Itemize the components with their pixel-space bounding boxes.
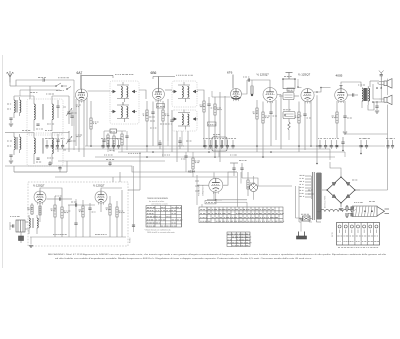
mains plug xyxy=(349,202,390,217)
capacitor C47 xyxy=(341,137,344,151)
fuse F1 xyxy=(301,214,312,221)
capacitor cluster C13-C16 xyxy=(45,138,65,149)
wire phono bottom bus xyxy=(30,235,126,238)
wire xyxy=(76,98,88,157)
volume control P1 xyxy=(208,122,228,157)
junction dots xyxy=(90,145,363,158)
wire xyxy=(158,99,168,146)
rectifier bridge xyxy=(322,172,360,207)
IF transformer T2 secondary xyxy=(172,110,198,132)
tube V1 xyxy=(76,89,88,103)
IF transformer T1 xyxy=(110,81,139,124)
capacitor C4 xyxy=(149,102,155,147)
resistor R17 xyxy=(116,201,125,237)
tube V8 xyxy=(34,191,46,205)
resistor R2 xyxy=(143,101,149,152)
capacitor C1 xyxy=(38,78,46,82)
resistor R3 xyxy=(162,101,169,157)
phono preamp enclosure xyxy=(28,182,128,246)
svg-text:6E84: 6E84 xyxy=(188,170,195,174)
power transformer T5 xyxy=(300,172,327,222)
svg-text:PRESA FONO: PRESA FONO xyxy=(198,184,201,196)
svg-text:* Valori rilevati con voltmet: * Valori rilevati con voltmetro da xyxy=(144,228,171,231)
tube V3 xyxy=(231,89,242,102)
wire xyxy=(40,188,122,237)
svg-text:AVVOLG. RETE: AVVOLG. RETE xyxy=(324,195,327,208)
wire bus xyxy=(14,161,67,172)
wire xyxy=(113,152,140,232)
capacitor C45 xyxy=(346,205,348,218)
inductor L2 xyxy=(7,134,21,163)
wire AVC bus xyxy=(55,148,330,150)
tube label 12SQ7b xyxy=(298,73,311,77)
resistor R8 xyxy=(279,88,299,100)
wire xyxy=(14,96,69,103)
wire B+ bus xyxy=(85,145,385,147)
capacitor C43 xyxy=(108,161,111,166)
capacitor C7 xyxy=(282,73,296,89)
tube label 4005 xyxy=(336,73,343,77)
capacitor cluster C31-C32 xyxy=(359,138,370,154)
wire xyxy=(368,102,379,110)
wire bus xyxy=(55,176,237,178)
svg-text:FONO: FONO xyxy=(130,237,132,243)
tube label 6B6 xyxy=(151,71,157,75)
capacitor C35 xyxy=(47,196,73,201)
capacitor C6 xyxy=(243,77,270,88)
capacitor C48 xyxy=(158,140,161,149)
wire xyxy=(387,79,389,190)
wire xyxy=(214,172,292,200)
svg-text:GIRADISCHI: GIRADISCHI xyxy=(202,185,205,196)
ground xyxy=(296,218,304,221)
vertical caption xyxy=(130,237,132,243)
svg-text:½ 12SQ7: ½ 12SQ7 xyxy=(33,184,45,188)
tube label 12SQ7d xyxy=(93,184,105,188)
capacitor C46 xyxy=(351,207,353,217)
wire xyxy=(5,131,69,135)
ground xyxy=(29,237,33,248)
wire xyxy=(370,81,379,99)
resistor R10 xyxy=(295,102,302,153)
capacitor cluster C17-C20 xyxy=(101,138,122,149)
svg-text:½ 12SQ7: ½ 12SQ7 xyxy=(298,73,311,77)
antenna xyxy=(7,71,14,83)
tube label 6A7 xyxy=(77,71,83,75)
wire xyxy=(276,95,281,150)
capacitor C12 xyxy=(375,103,379,113)
tube V7 xyxy=(209,178,223,194)
wire xyxy=(88,90,147,99)
wire mains pair xyxy=(296,186,314,222)
tube V9 xyxy=(95,191,107,205)
wire bus right xyxy=(329,149,331,160)
wire xyxy=(63,96,74,150)
caption text xyxy=(48,253,387,260)
capacitor C40 xyxy=(168,110,174,152)
wire xyxy=(207,192,254,201)
capacitor C8 xyxy=(269,102,277,147)
svg-text:TENSIONI MISURATE: TENSIONI MISURATE xyxy=(147,197,169,200)
resistor R12 xyxy=(27,203,33,215)
svg-text:½ 12SQ7: ½ 12SQ7 xyxy=(257,73,270,77)
annotation xyxy=(198,184,205,196)
capacitor C39 xyxy=(239,161,246,179)
wire top-cap staple xyxy=(82,75,134,78)
oscillator network xyxy=(102,129,128,152)
wire xyxy=(69,199,78,237)
pickup PU xyxy=(10,217,28,244)
resistor R14 xyxy=(61,201,70,238)
svg-text:MECANISMO: Mod. 47 1139 Appr: MECANISMO: Mod. 47 1139 Approvato la 348… xyxy=(48,253,387,256)
svg-text:RETE: RETE xyxy=(332,231,334,237)
svg-text:4005: 4005 xyxy=(336,73,343,77)
resistor R7 xyxy=(262,102,270,158)
tube V6 xyxy=(335,86,348,103)
wire xyxy=(10,80,42,86)
wire heater bus xyxy=(95,155,335,157)
variable capacitor CV1 xyxy=(66,103,77,124)
wire top-cap staple xyxy=(153,75,193,88)
output transformer T3 xyxy=(358,85,370,108)
resistor R9 xyxy=(283,100,295,140)
wire xyxy=(341,82,361,97)
wire xyxy=(16,86,60,96)
tap table xyxy=(227,232,251,247)
ground xyxy=(339,203,343,211)
tube V4 xyxy=(263,88,277,104)
capacitor C11 xyxy=(372,71,383,103)
connector J1 xyxy=(241,172,258,192)
resistor R5 xyxy=(214,97,222,156)
wire field return upper xyxy=(345,133,388,135)
ballast resistor xyxy=(317,210,356,212)
svg-text:6T6: 6T6 xyxy=(227,71,233,75)
tube label 12SQ7a xyxy=(257,73,270,77)
wire xyxy=(212,75,247,98)
svg-text:ed alta fedelta con mobile d'i: ed alta fedelta con mobile d'impedenza v… xyxy=(55,257,313,260)
capacitor C38 xyxy=(230,163,238,176)
tube V2 xyxy=(152,88,164,102)
resistor R20 xyxy=(251,80,253,96)
capacitor C2 xyxy=(67,110,74,126)
svg-text:1000 ohm/V in corrente alterna: 1000 ohm/V in corrente alternata xyxy=(147,231,175,234)
wire xyxy=(165,90,204,162)
voltage table xyxy=(144,197,183,234)
capacitor cluster C21-C26 xyxy=(203,138,236,149)
resistor R19 xyxy=(39,206,41,222)
capacitor cluster C33-C34 xyxy=(386,138,395,149)
resistor R1 xyxy=(90,101,99,146)
capacitor C10 xyxy=(343,101,352,134)
wire xyxy=(310,95,318,164)
wire ground bus xyxy=(5,166,237,172)
wire bus xyxy=(58,160,165,162)
wire xyxy=(195,173,228,206)
wire xyxy=(44,75,81,97)
speaker LS2 xyxy=(379,95,392,105)
capacitor C42 xyxy=(58,166,61,172)
speaker LS1 xyxy=(379,79,392,89)
resistor R11 xyxy=(332,101,339,138)
resistor R18 xyxy=(247,172,255,196)
coil assembly L3 xyxy=(27,99,63,135)
variable capacitor CV2 xyxy=(66,131,75,152)
resistor R13 xyxy=(51,196,57,237)
wire bus xyxy=(118,152,345,157)
capacitor C41 xyxy=(48,161,51,166)
capacitor C44 xyxy=(178,141,191,172)
capacitor C37 xyxy=(68,202,95,207)
voltage selector xyxy=(332,223,380,248)
capacitor cluster C27-C30 xyxy=(318,138,339,149)
tube label 6E84 xyxy=(188,170,195,174)
screen network xyxy=(150,104,167,129)
resistor R21 xyxy=(192,152,200,177)
wire xyxy=(298,79,331,93)
tube label 6T6 xyxy=(227,71,233,75)
parts value table xyxy=(199,172,284,223)
IF transformer T2 xyxy=(172,81,198,107)
input transformer T4 xyxy=(29,215,38,234)
svg-text:½ 12SQ7: ½ 12SQ7 xyxy=(93,184,105,188)
resistor R4 xyxy=(200,97,206,146)
wire xyxy=(330,162,388,190)
capacitor C36 xyxy=(88,203,95,237)
capacitor C5 xyxy=(207,97,215,150)
bus label xyxy=(128,152,141,154)
coil assembly L4 xyxy=(27,133,63,166)
svg-text:6B6: 6B6 xyxy=(151,71,157,75)
tube V5 xyxy=(297,86,314,103)
resistor R16 xyxy=(106,196,112,237)
resistor R15 xyxy=(79,200,85,237)
wire xyxy=(220,92,225,162)
capacitor C9 xyxy=(303,102,310,150)
resistor R6 xyxy=(253,100,259,152)
svg-text:6A7: 6A7 xyxy=(77,71,83,75)
inductor L1 xyxy=(7,97,21,126)
svg-text:fra zoccoli e telaio: fra zoccoli e telaio xyxy=(149,200,164,203)
tube label 12SQ7c xyxy=(33,184,45,188)
svg-text:con tensione a vuoto: con tensione a vuoto xyxy=(151,202,168,205)
phono mains plug xyxy=(297,215,313,239)
switch S1 xyxy=(55,83,71,91)
capacitor C49 xyxy=(178,137,181,149)
